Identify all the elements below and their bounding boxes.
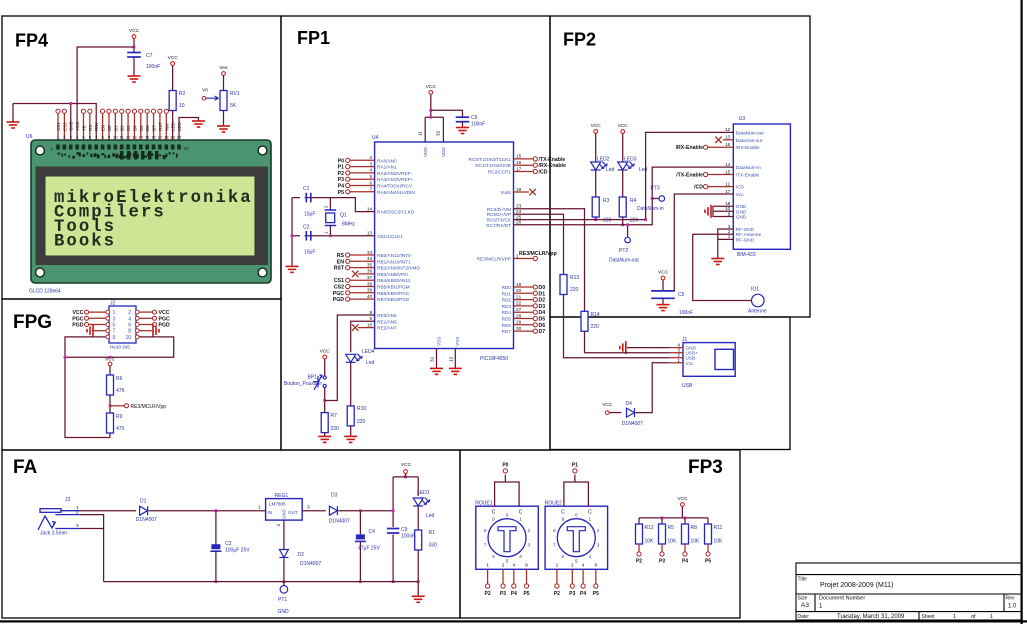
svg-text:3: 3 [307,505,310,510]
svg-text:1: 1 [953,614,956,620]
ground VSS 31 [430,368,443,374]
junction MCLR tap [109,404,112,407]
svg-text:1: 1 [519,517,522,522]
J2 pin8 ground [139,330,153,332]
resistor R6 [107,375,114,395]
svg-text:D1: D1 [140,499,147,505]
svg-text:P3: P3 [569,591,575,597]
svg-text:C7: C7 [146,53,153,59]
svg-text:RB2/AN8/INT2/VMO: RB2/AN8/INT2/VMO [377,266,420,271]
svg-text:DataNum-out: DataNum-out [736,130,765,135]
svg-text:0: 0 [575,512,578,517]
svg-text:DataNum-in: DataNum-in [637,206,664,212]
svg-text:2: 2 [571,563,574,568]
svg-text:220: 220 [591,324,600,330]
svg-text:RE3/MCLR/Vpp: RE3/MCLR/Vpp [131,404,167,410]
svg-text:13: 13 [132,135,137,140]
svg-text:Tuesday, March 31, 2009: Tuesday, March 31, 2009 [837,614,905,620]
svg-text:1: 1 [677,358,680,363]
svg-text:P4: P4 [338,184,344,190]
svg-text:VDD: VDD [441,146,446,157]
svg-text:D1N4007: D1N4007 [136,517,157,523]
svg-text:8: 8 [595,563,598,568]
svg-text:Led: Led [606,167,615,173]
svg-text:RC4/D-/VM: RC4/D-/VM [487,207,511,212]
svg-text:47K: 47K [116,388,126,394]
svg-text:C: C [588,510,592,516]
svg-text:RD1: RD1 [502,291,512,296]
svg-text:3: 3 [113,316,116,322]
svg-text:D2: D2 [298,552,305,558]
svg-text:RD4: RD4 [502,310,512,315]
U4 right pins [469,154,566,335]
svg-text:of: of [971,614,976,620]
svg-text:Rev: Rev [1006,596,1015,602]
testpoint PT2 [627,225,629,238]
resistor R10 [347,406,354,426]
ground VSS 12 [449,368,462,374]
svg-text:15: 15 [725,169,731,174]
svg-text:R13: R13 [570,275,579,281]
svg-text:LED+: LED+ [171,119,176,131]
svg-text:D3: D3 [331,493,338,499]
svg-text:1: 1 [556,563,559,568]
wire RF-Antenne to IO1 [693,234,751,300]
svg-text:1: 1 [258,505,261,510]
svg-text:14: 14 [367,206,373,211]
U3 pin15 net /TX-Enable [708,174,734,176]
svg-text:FPG: FPG [13,312,52,333]
svg-text:7: 7 [113,329,116,335]
svg-text:P5: P5 [338,190,344,196]
svg-text:8: 8 [525,563,528,568]
wire GLCD pin 20 to ground [179,118,198,147]
svg-text:4: 4 [513,563,516,568]
svg-text:1: 1 [589,517,592,522]
J2 right nets VCC PGC PGD [139,311,152,313]
svg-text:100µF 25V: 100µF 25V [225,548,250,554]
svg-text:VCC: VCC [75,122,80,131]
svg-text:RB7/KBI3/PGD: RB7/KBI3/PGD [377,297,410,302]
svg-text:C5: C5 [678,292,685,298]
svg-text:R14: R14 [591,312,600,318]
svg-text:USB: USB [682,383,693,389]
svg-text:LM7805: LM7805 [269,502,286,507]
block FA outline [2,450,460,618]
svg-text:VCC: VCC [426,84,437,90]
svg-text:9: 9 [369,316,372,321]
svg-text:P2: P2 [485,591,491,597]
svg-text:D5: D5 [139,125,144,131]
capacitor C9 [387,527,400,535]
svg-text:2: 2 [276,524,281,527]
svg-text:D0: D0 [107,125,112,131]
svg-text:21: 21 [516,294,522,299]
svg-text:P5: P5 [523,591,529,597]
svg-text:DataAna-out: DataAna-out [736,138,763,143]
testpoint PT1 [283,580,286,583]
svg-text:RA1/AN1: RA1/AN1 [377,165,397,170]
block USB section outline [550,317,790,450]
svg-text:9: 9 [492,517,495,522]
resistor R12 [638,518,640,524]
svg-text:Jack 3.5mm: Jack 3.5mm [40,531,67,537]
svg-text:10: 10 [125,335,131,341]
svg-text:D5: D5 [539,317,546,323]
svg-text:RA0/AN0: RA0/AN0 [377,158,397,163]
svg-text:RE0/AN5: RE0/AN5 [377,313,397,318]
svg-text:D2: D2 [120,125,125,131]
svg-text:D4: D4 [626,401,633,407]
resistor R14 [581,311,588,331]
wire J3 pins 2-3 to bottom rail [80,515,104,582]
svg-text:C9: C9 [401,527,408,533]
resistor R3 [592,197,599,217]
svg-text:10K: 10K [691,539,701,545]
svg-text:Sheet: Sheet [922,614,936,620]
svg-text:8: 8 [484,528,487,533]
ground under R7 [318,436,331,442]
svg-text:16: 16 [151,135,156,140]
svg-text:R11: R11 [714,525,723,531]
svg-text:C: C [492,510,496,516]
svg-text:9: 9 [562,517,565,522]
svg-text:/CD: /CD [736,185,745,190]
svg-text:D1: D1 [113,125,118,131]
svg-text:2: 2 [502,563,505,568]
block FP4 outline [2,16,281,299]
junction DataNum-out [644,218,647,221]
svg-text:LED-: LED- [177,120,182,131]
svg-text:RE3/MCLR/Vpp: RE3/MCLR/Vpp [519,251,557,257]
svg-text:10: 10 [113,135,118,140]
FA bottom rail [104,581,419,583]
svg-text:15pF: 15pF [304,250,315,256]
svg-text:RB4/KBI0/AN11: RB4/KBI0/AN11 [377,278,411,283]
svg-text:Vee: Vee [219,65,228,71]
svg-text:8: 8 [553,528,556,533]
U4 left pins [333,155,421,331]
svg-text:RD2: RD2 [502,298,512,303]
wire R14 to USB+ [585,331,670,352]
svg-text:/TX-Enable: /TX-Enable [736,173,760,178]
svg-text:0: 0 [506,512,509,517]
svg-text:14: 14 [139,135,144,140]
svg-text:C6: C6 [471,115,478,121]
svg-text:/RX-Enable: /RX-Enable [676,145,703,151]
svg-text:20: 20 [516,288,522,293]
svg-text:PGC: PGC [72,316,83,322]
svg-text:C: C [561,510,565,516]
wire RV1 to ground [223,111,225,127]
svg-text:5: 5 [113,323,116,329]
svg-text:D1N4007: D1N4007 [622,421,643,427]
svg-text:RD6: RD6 [502,323,512,328]
svg-text:100nF: 100nF [471,122,485,128]
svg-text:13: 13 [367,231,373,236]
svg-text:J3: J3 [65,497,71,503]
ground under C5 [657,305,670,311]
svg-text:DataNum-out: DataNum-out [609,258,639,264]
svg-text:Led: Led [426,513,435,519]
junction VDD [429,109,432,112]
svg-text:18: 18 [164,135,169,140]
svg-text:5K: 5K [230,103,237,109]
svg-text:D1N4007: D1N4007 [329,519,350,525]
capacitor C4 [359,509,362,512]
svg-text:47µF 25V: 47µF 25V [358,546,380,552]
svg-text:4: 4 [369,168,372,173]
svg-text:VCC: VCC [591,123,602,129]
svg-text:CS2: CS2 [334,285,344,291]
svg-text:220: 220 [630,218,639,224]
svg-text:31: 31 [430,356,435,362]
svg-text:PGC: PGC [159,316,170,322]
junction BP1 [323,399,326,402]
crystal Q1 [330,198,374,212]
svg-text:VCC: VCC [320,349,331,355]
GLCD pin pads [56,145,181,150]
svg-text:Projet 2008-2009 (M11): Projet 2008-2009 (M11) [820,582,893,589]
svg-text:12: 12 [448,356,453,362]
svg-text:P4: P4 [682,559,688,565]
svg-text:RD7: RD7 [502,329,512,334]
svg-text:P5: P5 [593,591,599,597]
block FP3 outline [460,450,740,618]
junction FP4 bus [69,102,72,105]
svg-text:U3: U3 [739,116,746,122]
capacitor C1 [292,197,330,199]
sheet border bottom [0,620,1027,622]
svg-text:RST: RST [334,266,345,272]
svg-text:4: 4 [582,563,585,568]
svg-text:VSS: VSS [455,337,460,346]
svg-text:7: 7 [553,542,556,547]
svg-text:27: 27 [516,307,522,312]
svg-text:D0: D0 [539,285,546,291]
svg-text:32: 32 [436,130,441,136]
svg-text:35: 35 [367,262,373,267]
svg-text:VCC: VCC [677,496,688,502]
svg-text:R5: R5 [668,525,675,531]
svg-text:6: 6 [562,554,565,559]
svg-text:RB5/KBI1/PGM: RB5/KBI1/PGM [377,285,410,290]
svg-text:VDD: VDD [423,146,428,157]
resistor R9 [107,413,114,433]
svg-text:Antenne: Antenne [748,309,767,315]
svg-text:1: 1 [113,310,116,316]
svg-text:6: 6 [492,554,495,559]
wire VCC bar FA [393,476,418,478]
svg-text:V0: V0 [81,125,86,131]
svg-text:33: 33 [367,250,373,255]
svg-text:11: 11 [418,131,423,136]
svg-text:100nF: 100nF [146,64,160,70]
svg-text:RC1/T1OSI/UOE: RC1/T1OSI/UOE [475,163,511,168]
svg-text:2: 2 [597,528,600,533]
svg-text:CS2: CS2 [62,122,67,131]
GLCD mounting holes [36,146,267,277]
svg-text:Title: Title [798,577,807,583]
svg-text:3: 3 [597,542,600,547]
GLCD pin net stub circles [56,109,168,113]
svg-text:15pF: 15pF [304,212,315,218]
wire J3 pin1 to D1 [80,510,136,512]
svg-text:DataNum-in: DataNum-in [736,165,761,170]
svg-text:EN: EN [337,259,344,265]
svg-text:RD5: RD5 [502,317,512,322]
svg-text:RV1: RV1 [230,91,240,97]
svg-text:D3: D3 [126,125,131,131]
svg-text:PT2: PT2 [619,248,628,254]
svg-text:5: 5 [575,558,578,563]
resistor R11 [707,518,709,524]
svg-text:GND: GND [736,215,747,220]
svg-text:RA4/T0CKI/RCV: RA4/T0CKI/RCV [377,184,413,189]
svg-text:VCC: VCC [73,310,84,316]
svg-text:V0: V0 [202,88,208,94]
svg-text:/CD: /CD [539,170,548,176]
wire RE0 to BP1 [325,315,375,401]
ground right of R2 [192,121,205,127]
svg-text:19: 19 [516,282,522,287]
svg-text:Date:: Date: [798,614,810,620]
svg-text:D4: D4 [132,125,137,131]
svg-text:LED1: LED1 [417,490,430,496]
svg-text:RA3/AN3/VREF+: RA3/AN3/VREF+ [377,177,413,182]
svg-text:C: C [519,510,523,516]
block FP2 outline [550,16,810,317]
svg-text:VSS: VSS [436,337,441,346]
svg-text:P2: P2 [338,171,344,177]
GLCD pin net labels [56,119,182,139]
svg-text:RE1/AN6: RE1/AN6 [377,319,397,324]
wire J2 pin10 loop [65,337,174,357]
svg-text:D6: D6 [145,125,150,131]
svg-text:/TX-Enable: /TX-Enable [676,173,703,179]
svg-text:Size: Size [798,596,808,602]
svg-text:D2: D2 [539,298,546,304]
svg-text:PGD: PGD [72,323,83,329]
svg-text:D4: D4 [539,310,546,316]
svg-text:6: 6 [128,323,131,329]
svg-text:C1: C1 [303,186,310,192]
svg-text:20: 20 [184,146,190,151]
svg-text:LED4: LED4 [362,349,375,355]
svg-text:C3: C3 [225,541,232,547]
svg-text:BP1: BP1 [308,375,318,381]
svg-text:P4: P4 [511,591,517,597]
U3 GND pins to ground [713,206,733,216]
svg-text:13: 13 [725,135,731,140]
svg-text:3: 3 [76,523,79,528]
U3 pin16 net /RX-Enable [708,146,734,148]
svg-text:Led: Led [639,167,648,173]
svg-text:100nF: 100nF [401,534,415,540]
svg-text:RS: RS [88,125,93,131]
svg-text:RE2/AN7: RE2/AN7 [377,326,397,331]
wire D4 to J1 Vcc [636,363,670,413]
junction crystal [291,234,294,237]
wire RC7 to U3 DataNum-in [514,167,734,225]
svg-text:FP1: FP1 [297,28,330,48]
svg-text:OSC1/CLK1: OSC1/CLK1 [377,234,403,239]
U3 pin13 no connect [723,139,733,141]
svg-text:LED3: LED3 [624,157,637,163]
svg-text:Bouton_Poussoir: Bouton_Poussoir [284,381,322,387]
junction C7 top [133,46,136,49]
svg-text:PGD: PGD [159,323,170,329]
ground under RV1 [217,126,230,132]
svg-text:Vcc: Vcc [736,192,744,197]
svg-text:A3: A3 [801,602,809,609]
svg-text:OUT: OUT [288,510,298,515]
svg-text:D7: D7 [539,329,546,335]
svg-text:PGD: PGD [333,297,344,303]
svg-text:RB0/AN12/INT0: RB0/AN12/INT0 [377,253,411,258]
svg-text:GND: GND [69,121,74,131]
ground crystal [286,266,299,272]
svg-text:RS: RS [337,253,345,259]
diode D2 below REG1 [283,520,285,549]
svg-text:2: 2 [76,510,79,515]
wire R4 bottom [622,217,624,225]
svg-text:RST: RST [158,122,163,131]
GLCD screen text [54,189,253,252]
sheet border right [1021,0,1023,624]
svg-text:R10: R10 [357,406,366,412]
svg-text:12: 12 [126,135,131,140]
svg-text:R4: R4 [630,198,637,204]
svg-text:PT1: PT1 [278,597,287,603]
svg-text:470: 470 [116,426,125,432]
svg-text:RB1/AN10/INT1: RB1/AN10/INT1 [377,259,411,264]
svg-text:30: 30 [516,326,522,331]
U3 pin11 net /CD [708,186,734,188]
U4 VDD pins top [424,117,426,142]
ground under R10 [344,436,357,442]
svg-text:1: 1 [990,614,993,620]
ground top-left FP4 [7,122,20,128]
wire left riser with C9 [392,477,394,582]
svg-text:U6: U6 [26,134,33,140]
svg-text:20: 20 [177,135,182,140]
svg-text:D6: D6 [539,323,546,329]
svg-text:BiM-433: BiM-433 [737,252,756,258]
svg-text:3: 3 [528,542,531,547]
svg-text:7: 7 [369,187,372,192]
svg-text:VCC: VCC [159,310,170,316]
svg-text:10K: 10K [668,539,678,545]
svg-text:R6: R6 [116,376,123,382]
capacitor C7 [133,39,135,53]
svg-text:VCC: VCC [129,28,140,34]
U3 RF-GND pins [718,229,734,239]
U4 VSS pins bottom [436,349,438,369]
svg-text:CS1: CS1 [334,278,344,284]
GLCD smd parts row [58,151,178,160]
svg-text:P2: P2 [554,591,560,597]
svg-text:29: 29 [516,320,522,325]
svg-text:14: 14 [725,162,731,167]
svg-text:RB6/KBI2/PGC: RB6/KBI2/PGC [377,291,410,296]
svg-text:4: 4 [589,554,592,559]
svg-text:C4: C4 [369,529,376,535]
svg-text:100nF: 100nF [679,310,693,316]
svg-text:FA: FA [13,457,38,478]
wire J2 pin9 loop [65,337,110,438]
svg-text:39: 39 [367,288,373,293]
